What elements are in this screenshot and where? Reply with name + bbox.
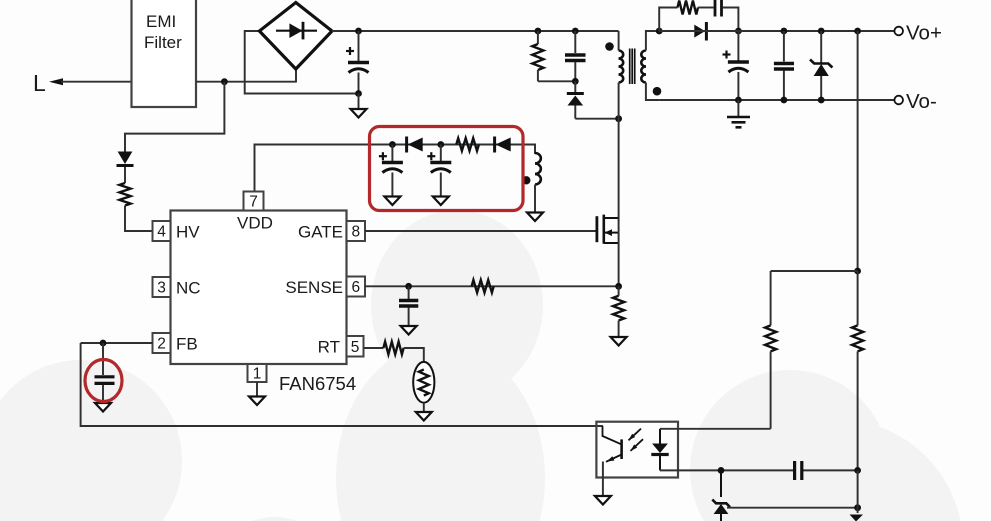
svg-text:HV: HV [176, 223, 200, 242]
ground C_vdd2 [433, 197, 449, 206]
wire snub R to C [698, 7, 714, 9]
wire FB pin [81, 342, 153, 344]
resistor R_hv [119, 183, 130, 206]
pin 7 box [244, 192, 264, 211]
wire LED cathode rail [660, 469, 858, 471]
wire primary to MOSFET drain [618, 83, 620, 219]
capacitor C_fb [95, 343, 115, 403]
resistor R_cs [613, 286, 624, 336]
junction Cout bottom [735, 97, 742, 104]
IC U1 body [171, 211, 347, 365]
junction clamp R top [535, 28, 542, 35]
capacitor C_snub2 [715, 0, 722, 17]
wire bridge left leg [245, 31, 359, 94]
wire secondary bottom [646, 83, 659, 101]
EMI filter box [132, 0, 197, 107]
red highlight circle [85, 360, 122, 402]
capacitor C_clamp [565, 31, 586, 81]
svg-text:RT: RT [318, 338, 340, 357]
wire LED bias top [771, 270, 858, 272]
MOSFET Q1 [597, 215, 619, 244]
opto LED [651, 429, 668, 471]
ground aux winding [527, 185, 543, 222]
resistor R_rt [383, 342, 403, 355]
secondary phase dot [653, 87, 662, 96]
diode D_vdd1 [407, 137, 423, 153]
aux winding [535, 153, 541, 185]
svg-text:2: 2 [157, 336, 166, 353]
wire SENSE line [365, 285, 619, 287]
junction aux cap1 [389, 141, 396, 148]
terminal Vo- [894, 90, 936, 113]
primary phase dot [605, 42, 614, 51]
capacitor C_ref [795, 461, 802, 480]
diode D_hv [117, 152, 134, 184]
output capacitor C_out [723, 31, 749, 100]
capacitor C_vdd1 [379, 145, 403, 197]
wire GATE to gate [365, 230, 596, 232]
label VDD [237, 214, 273, 233]
svg-text:GATE: GATE [298, 223, 343, 242]
junction drain node [615, 115, 622, 122]
node L label [33, 70, 46, 96]
svg-text:5: 5 [351, 339, 360, 356]
junction FB cap [100, 340, 107, 347]
transformer core [630, 49, 635, 85]
capacitor C_out2 [774, 31, 794, 100]
wire divider bottom [857, 470, 859, 513]
resistor R_sense_f [472, 280, 494, 293]
junction FB tap top [854, 28, 861, 35]
thermistor RT1 [413, 362, 434, 412]
svg-text:FB: FB [176, 335, 198, 354]
capacitor C_vdd2 [427, 145, 451, 197]
junction clamp C bottom [572, 78, 579, 85]
label FAN6754 [279, 373, 356, 394]
svg-text:7: 7 [249, 194, 258, 211]
pin 6 box [347, 277, 366, 297]
svg-text:Filter: Filter [144, 33, 182, 52]
label RT [318, 338, 340, 357]
earth ground output [727, 100, 750, 127]
wire LED anode [660, 428, 771, 430]
junction snubber left [656, 28, 663, 35]
junction ref cap right [854, 467, 861, 474]
resistor R_vdd [456, 138, 479, 151]
terminal Vo+ [894, 22, 942, 45]
wire clamp bottom [538, 80, 575, 82]
wire bridge to bulk cap [332, 30, 359, 32]
svg-text:EMI: EMI [146, 12, 176, 31]
junction source node [615, 283, 622, 290]
junction bulk cap top [355, 28, 362, 35]
Vo- rail [659, 99, 894, 101]
red highlight box [370, 127, 524, 211]
wire secondary top [646, 31, 659, 51]
Vo+ rail [659, 30, 894, 32]
ground opto [595, 496, 611, 505]
main DC rail [359, 30, 619, 32]
wire FB divider top [857, 31, 859, 271]
svg-text:FAN6754: FAN6754 [279, 373, 356, 394]
svg-text:Vo-: Vo- [906, 90, 937, 113]
junction C2 top [781, 28, 788, 35]
wire FB to opto [81, 343, 603, 426]
opto phototransistor [603, 426, 622, 496]
wire ref line [727, 507, 858, 509]
resistor R_bias [765, 271, 776, 429]
L arrow [49, 78, 132, 85]
junction zener bottom [818, 97, 825, 104]
ground bulk cap [351, 94, 367, 118]
capacitor C_sense [399, 286, 418, 325]
svg-text:4: 4 [157, 224, 166, 241]
junction node A [221, 78, 228, 85]
junction divider top [854, 268, 861, 275]
ground R_cs [611, 337, 627, 346]
wire clamp to drain [575, 118, 618, 120]
ground pin 1 [249, 382, 265, 405]
wire RT pin [364, 347, 384, 349]
bridge rectifier BR1 [259, 3, 332, 70]
shunt regulator U3 [712, 470, 730, 521]
label NC [176, 279, 201, 298]
label FB [176, 335, 198, 354]
transformer secondary winding [641, 51, 646, 83]
svg-text:SENSE: SENSE [285, 278, 343, 297]
ground C_fb [95, 403, 111, 412]
junction sense cap [405, 283, 412, 290]
ground RT1 [416, 412, 432, 421]
diode D_clamp [567, 81, 584, 118]
junction C2 bottom [781, 97, 788, 104]
junction aux cap2 [437, 141, 444, 148]
wire snub C down [723, 8, 739, 32]
wire VDD pin to aux [255, 145, 536, 192]
label SENSE [285, 278, 343, 297]
diode D_vdd2 [495, 137, 511, 153]
optocoupler U2 box [596, 422, 678, 478]
junction ref cap left [718, 467, 725, 474]
pin 1 box [248, 364, 267, 383]
wire to aux winding [511, 145, 535, 155]
svg-text:L: L [33, 70, 46, 96]
resistor R_upper [852, 271, 863, 470]
wire rail to primary [618, 31, 620, 51]
zener ZD_out [810, 31, 832, 100]
svg-text:Vo+: Vo+ [906, 22, 942, 45]
pin 8 box [347, 221, 366, 241]
bulk capacitor C1 [346, 31, 369, 94]
svg-text:3: 3 [157, 280, 166, 297]
wire snubber up [659, 8, 677, 32]
junction bulk cap bottom [355, 90, 362, 97]
transformer primary winding [619, 51, 624, 83]
pin 4 box [153, 221, 171, 241]
label GATE [298, 223, 343, 242]
pin 5 box [347, 336, 364, 357]
ground partial bottom [850, 515, 864, 521]
opto light arrows [629, 429, 644, 451]
wire to NTC [404, 348, 424, 362]
pin 2 box [153, 333, 171, 353]
wire source to sense [618, 233, 620, 287]
label HV [176, 223, 200, 242]
svg-text:VDD: VDD [237, 214, 273, 233]
junction clamp C top [572, 28, 579, 35]
svg-text:NC: NC [176, 279, 201, 298]
pin 3 box [153, 277, 171, 297]
svg-text:8: 8 [351, 224, 360, 241]
diode D_out [694, 22, 708, 41]
ground C_vdd1 [384, 197, 400, 206]
wire to pin 4 [125, 206, 153, 232]
junction zener top [818, 28, 825, 35]
resistor R_clamp [532, 31, 543, 81]
junction ref node [854, 504, 861, 511]
svg-text:6: 6 [351, 279, 360, 296]
wire node A to HV diode [125, 82, 224, 152]
junction out diode cathode [735, 28, 742, 35]
svg-text:1: 1 [253, 366, 262, 383]
wire EMI to bridge [196, 69, 296, 83]
resistor R_snub2 [678, 1, 699, 15]
wire drain lead [618, 218, 620, 233]
aux phase dot [522, 176, 530, 184]
ground C_sense [401, 326, 417, 335]
